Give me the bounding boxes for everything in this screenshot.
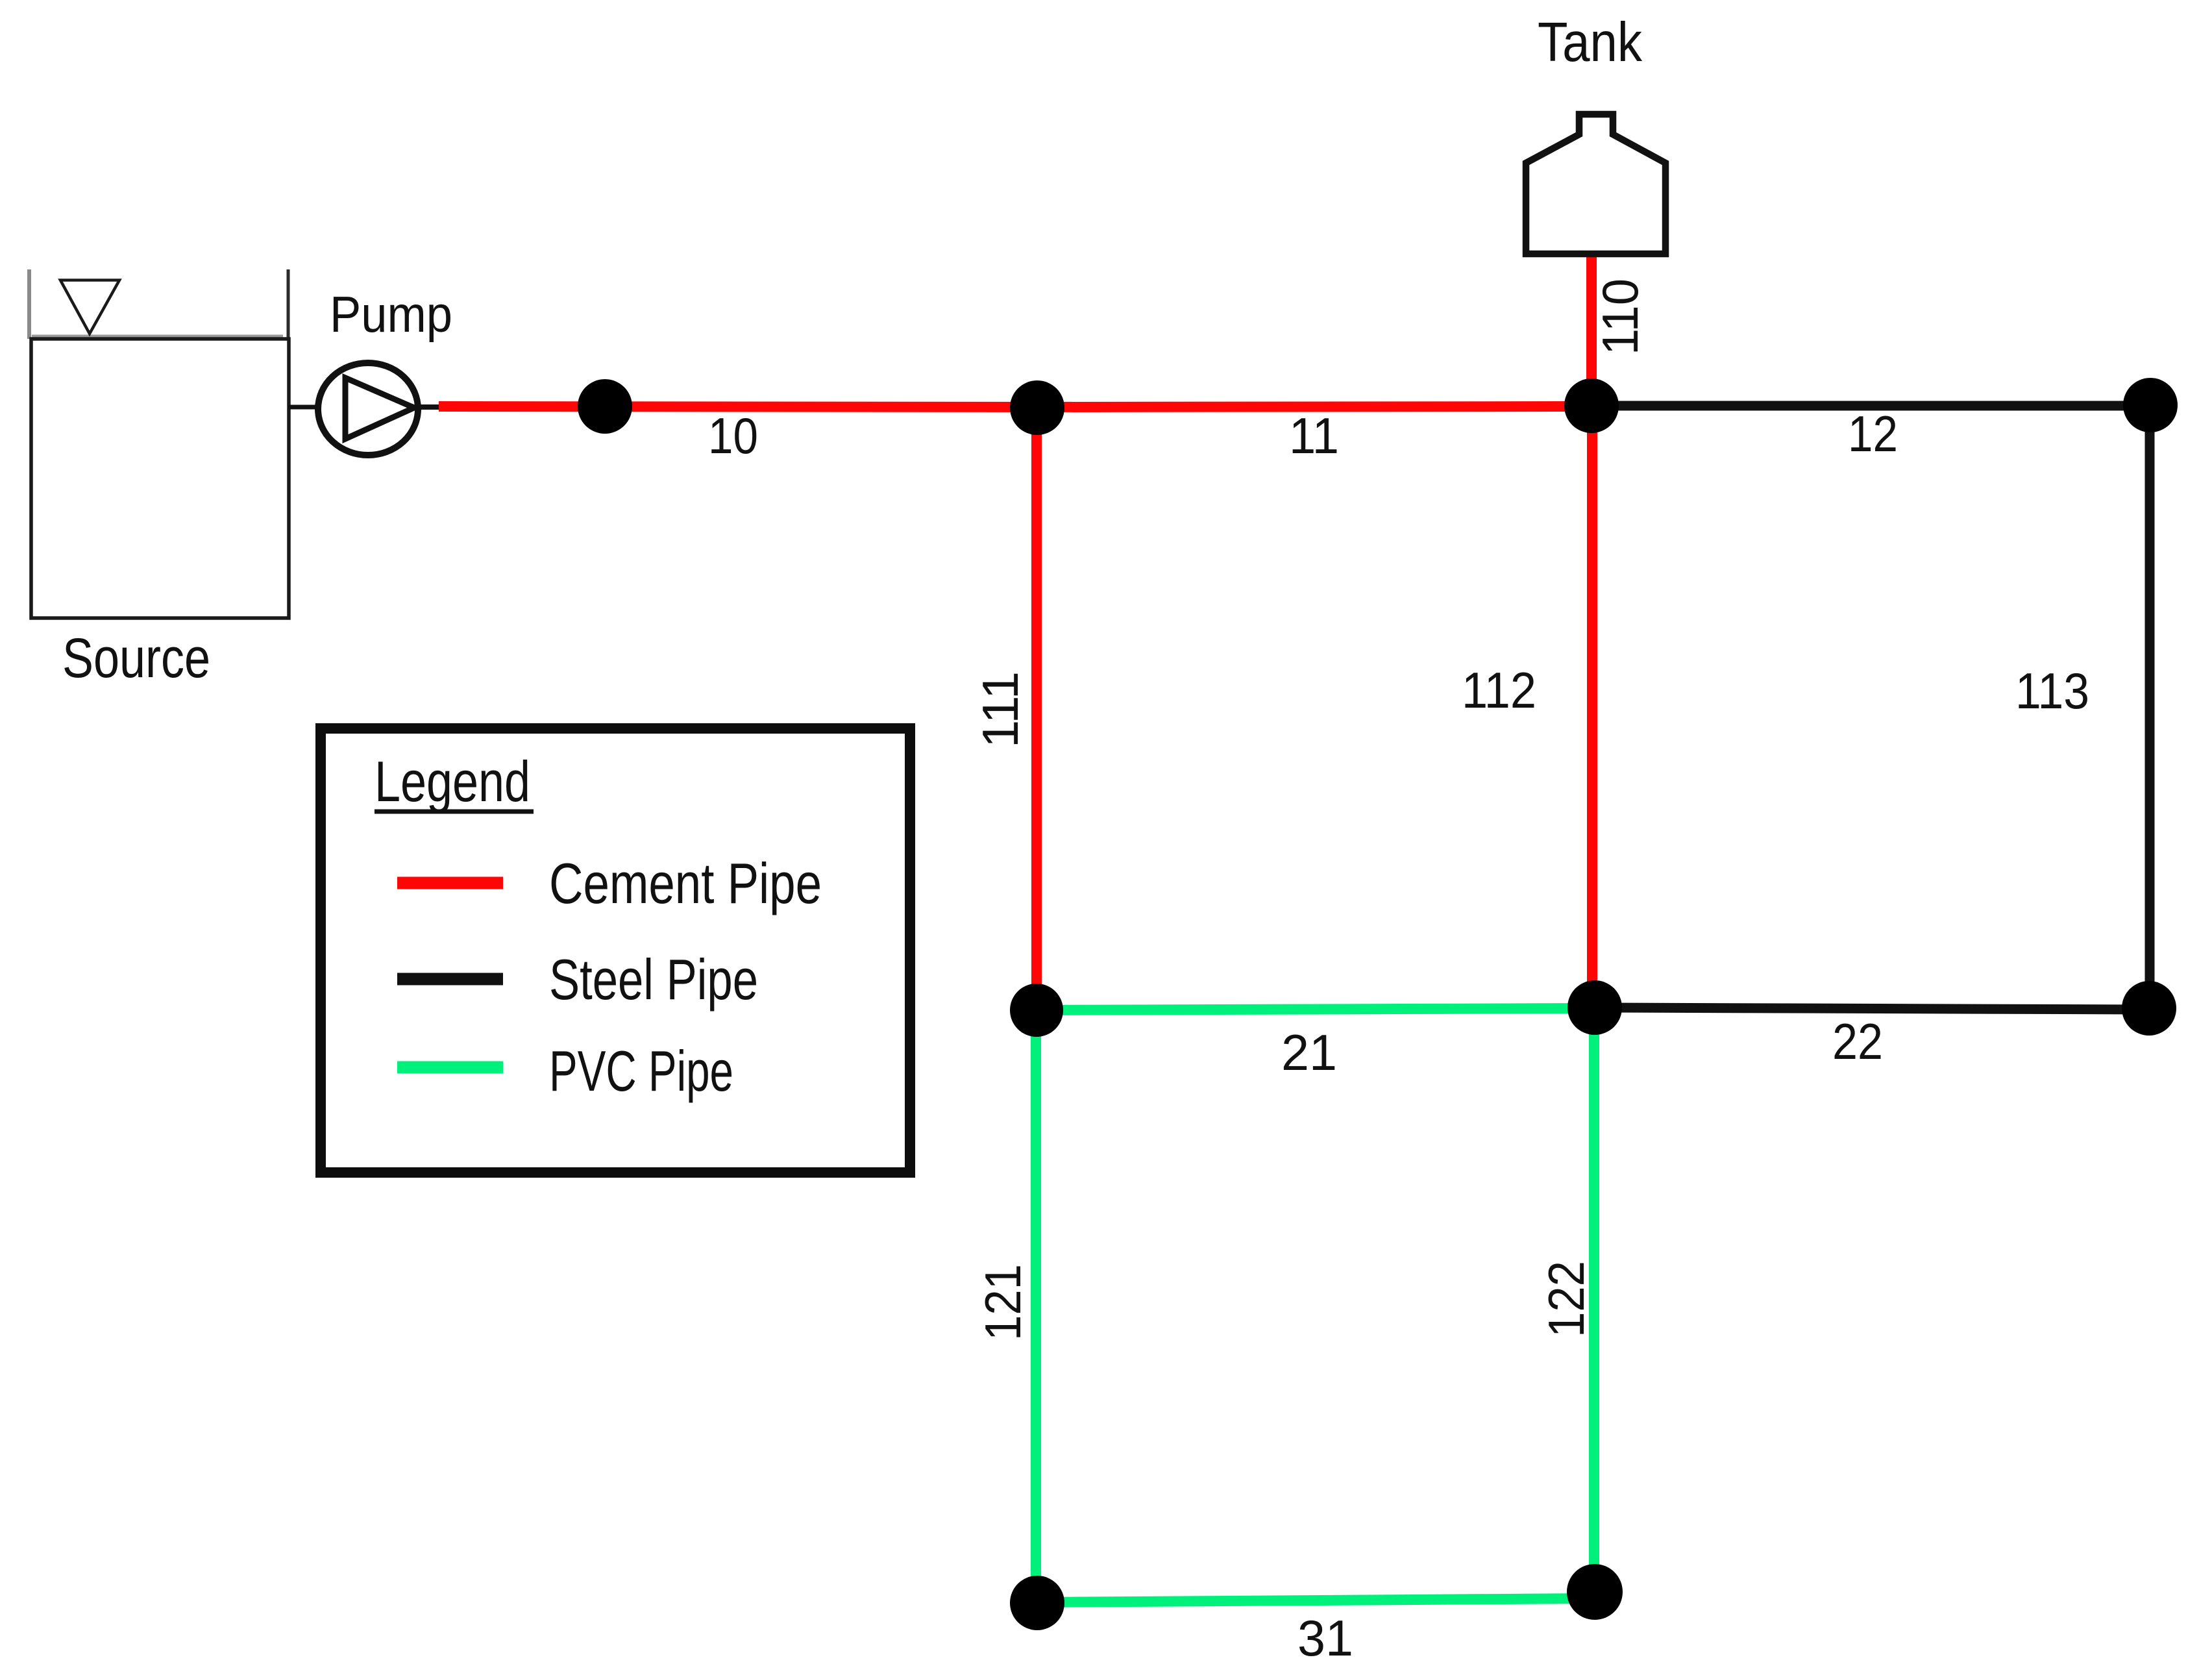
svg-text:21: 21 — [1281, 1024, 1337, 1081]
node J3 (tank node) — [1564, 378, 1619, 433]
svg-text:122: 122 — [1538, 1261, 1595, 1337]
tank symbol — [1526, 114, 1665, 254]
svg-text:111: 111 — [972, 671, 1029, 748]
svg-text:113: 113 — [2015, 662, 2089, 719]
pipe 111 (cement) — [1031, 408, 1042, 1010]
pipe 122 (PVC) — [1589, 1008, 1599, 1592]
node J4 — [2123, 378, 2178, 432]
svg-text:10: 10 — [708, 407, 758, 464]
node J7 — [2122, 981, 2176, 1036]
legend cement pipe swatch — [397, 877, 503, 889]
pipe 110 (cement) — [1586, 256, 1597, 406]
svg-text:110: 110 — [1591, 279, 1649, 355]
legend box — [321, 728, 910, 1172]
node J9 — [1567, 1564, 1623, 1620]
legend steel pipe swatch — [397, 973, 503, 986]
svg-text:Legend: Legend — [375, 749, 530, 813]
svg-text:Tank: Tank — [1538, 12, 1642, 73]
pipe 112 (cement) — [1587, 406, 1597, 1008]
pipe 121 (PVC) — [1031, 1010, 1041, 1603]
node J5 — [1010, 984, 1063, 1037]
water level triangle — [60, 280, 119, 334]
legend PVC pipe swatch — [397, 1061, 503, 1074]
source reservoir walls — [29, 269, 289, 618]
svg-text:Cement Pipe: Cement Pipe — [549, 851, 822, 915]
svg-text:31: 31 — [1297, 1609, 1353, 1667]
svg-text:11: 11 — [1289, 407, 1339, 464]
node J6 — [1567, 980, 1622, 1035]
node J1 — [578, 379, 632, 434]
wire pump outlet stub — [415, 404, 441, 410]
pipe 113 (steel) — [2145, 405, 2155, 1008]
pipe 10 (cement) — [439, 406, 1037, 407]
wire tank-to-pump — [288, 405, 321, 410]
pipe 31 (PVC) — [1037, 1598, 1595, 1602]
svg-text:112: 112 — [1462, 662, 1536, 719]
pipe 11 (cement) — [1037, 406, 1591, 407]
svg-text:22: 22 — [1832, 1013, 1883, 1070]
svg-text:12: 12 — [1848, 405, 1898, 462]
svg-text:Steel Pipe: Steel Pipe — [549, 947, 758, 1011]
pipe 12 (steel) — [1591, 401, 2150, 411]
node J8 — [1010, 1576, 1064, 1630]
svg-text:Pump: Pump — [330, 286, 452, 343]
svg-text:Source: Source — [62, 627, 210, 689]
svg-text:121: 121 — [974, 1264, 1031, 1341]
svg-text:PVC Pipe: PVC Pipe — [549, 1039, 733, 1103]
pump P1 — [318, 363, 418, 455]
pipe 21 (PVC) — [1037, 1008, 1595, 1010]
node J2 — [1010, 380, 1064, 435]
pipe 22 (steel) — [1595, 1008, 2149, 1010]
